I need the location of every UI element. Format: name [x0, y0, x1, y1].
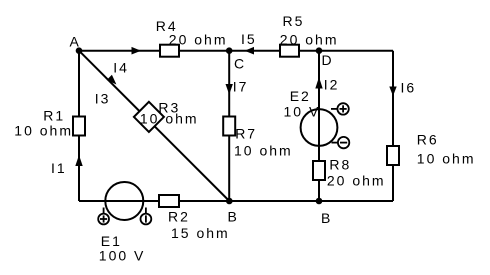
wire diagonal A-B	[79, 51, 229, 201]
resistor R5	[280, 45, 299, 57]
E1 positive terminal	[98, 208, 109, 225]
svg-text:15 ohm: 15 ohm	[171, 225, 230, 241]
voltage source E1 circle	[105, 182, 143, 220]
resistor R2	[159, 195, 179, 207]
node B (junction dot)	[226, 198, 233, 205]
current arrow I2 (up)	[315, 77, 322, 89]
voltage source E2 circle	[301, 109, 338, 146]
E2 positive terminal	[331, 103, 349, 114]
svg-text:20 ohm: 20 ohm	[169, 31, 228, 47]
svg-text:20 ohm: 20 ohm	[327, 173, 386, 189]
svg-text:R7: R7	[235, 126, 257, 142]
svg-text:R6: R6	[417, 132, 439, 148]
resistor R7	[223, 117, 235, 136]
resistor R3 (diamond)	[134, 102, 164, 132]
svg-text:A: A	[70, 33, 81, 49]
svg-text:R2: R2	[168, 209, 190, 225]
resistor R4	[160, 45, 179, 57]
svg-text:10 ohm: 10 ohm	[417, 151, 476, 167]
wire top A-D-corner	[79, 50, 393, 52]
svg-text:R5: R5	[283, 13, 305, 29]
svg-text:B: B	[321, 210, 332, 226]
svg-text:R1: R1	[43, 107, 65, 123]
wire D vertical	[318, 51, 320, 201]
current arrow I5 (left)	[245, 47, 255, 55]
node C (junction dot)	[226, 47, 233, 54]
resistor R6	[387, 146, 399, 165]
svg-text:I4: I4	[113, 59, 129, 75]
svg-text:10 ohm: 10 ohm	[14, 122, 73, 138]
current arrow I3 (down-right along diagonal)	[107, 75, 117, 85]
svg-text:I7: I7	[233, 79, 249, 95]
svg-text:100 V: 100 V	[99, 248, 146, 264]
resistor R1	[73, 117, 85, 136]
svg-text:E2: E2	[290, 88, 311, 104]
E2 negative terminal	[332, 137, 350, 148]
svg-text:R8: R8	[329, 157, 351, 173]
svg-text:20 ohm: 20 ohm	[280, 32, 339, 48]
svg-text:I3: I3	[95, 91, 111, 107]
svg-text:10 ohm: 10 ohm	[140, 111, 199, 127]
svg-text:B: B	[228, 209, 239, 225]
svg-text:I2: I2	[324, 77, 340, 93]
wire left A to bottom-left	[78, 51, 80, 201]
svg-text:10 ohm: 10 ohm	[234, 143, 293, 159]
wire right vertical	[392, 51, 394, 201]
node A (junction dot)	[76, 47, 83, 54]
current arrow I7 (down)	[226, 84, 233, 95]
current arrow I1 (up)	[75, 155, 82, 166]
svg-text:I1: I1	[51, 160, 67, 176]
wire C-B vertical	[228, 51, 230, 201]
node D (junction dot)	[316, 47, 323, 54]
current arrow I4 (right)	[132, 47, 142, 55]
wire bottom left-corner to bottom-right	[79, 200, 393, 202]
current arrow I6 (down)	[389, 87, 396, 97]
svg-text:I6: I6	[401, 80, 417, 96]
node B right (junction dot)	[316, 198, 323, 205]
svg-text:10 V: 10 V	[284, 103, 321, 119]
svg-text:C: C	[234, 56, 246, 72]
E1 negative terminal	[141, 208, 152, 225]
svg-text:D: D	[322, 52, 334, 68]
resistor R8	[313, 161, 325, 180]
svg-text:I5: I5	[241, 31, 257, 47]
